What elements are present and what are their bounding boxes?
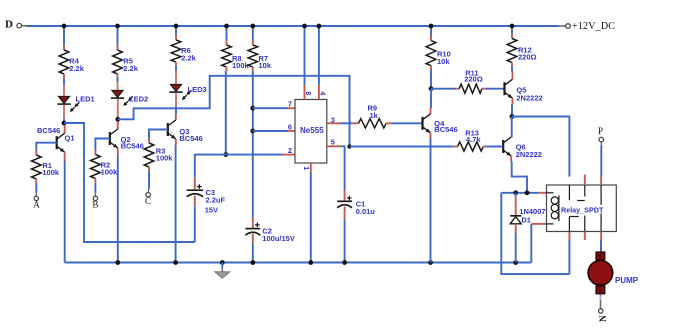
svg-text:10k: 10k	[437, 57, 450, 66]
transistor Q5	[505, 79, 513, 98]
wire relay to pump	[600, 240, 602, 252]
wire pin 5 to C1	[327, 145, 341, 147]
wire C1 bottom to ground rail	[344, 220, 346, 263]
wire pin 6	[253, 130, 288, 132]
svg-text:PUMP: PUMP	[615, 276, 639, 285]
resistor R11	[456, 84, 486, 93]
svg-text:A: A	[33, 200, 40, 210]
svg-text:BC546: BC546	[434, 125, 457, 134]
resistor R3	[144, 139, 154, 172]
node ground Q2	[115, 260, 120, 265]
node ground Q4	[428, 260, 433, 265]
svg-text:P: P	[598, 126, 603, 136]
wire R13 to Q6 base	[486, 146, 503, 148]
wire Q5 emitter to node	[512, 98, 514, 104]
resistor R1	[31, 151, 41, 184]
transistor Q6	[503, 137, 511, 156]
svg-text:2N2222: 2N2222	[516, 93, 542, 102]
wire Q2 emitter to ground rail	[117, 148, 119, 156]
node rail R4	[62, 24, 67, 29]
svg-text:2.2uF: 2.2uF	[206, 196, 226, 205]
transistor Q2	[110, 129, 118, 148]
LED LED2	[111, 91, 148, 107]
svg-text:0.01u: 0.01u	[356, 207, 376, 216]
wire R6 to LED3	[175, 66, 177, 71]
wire pin 7	[253, 107, 288, 109]
wire R12 to Q5 collector	[511, 66, 513, 72]
svg-text:LED1: LED1	[76, 95, 95, 104]
resistor R13	[453, 142, 486, 151]
wire R11 to Q5 base	[486, 88, 505, 90]
node ground Q3	[173, 260, 178, 265]
svg-text:220Ω: 220Ω	[464, 75, 483, 84]
wire relay pin stubs	[585, 175, 601, 241]
wire Q4 emitter to ground rail	[430, 133, 432, 139]
svg-text:C: C	[145, 196, 151, 206]
resistor R9	[352, 119, 391, 128]
wire R3 to terminal C	[148, 171, 150, 189]
wire pin 1 to ground rail	[310, 163, 312, 172]
wire rail to R8	[226, 26, 228, 40]
svg-text:D1: D1	[521, 215, 531, 224]
svg-text:B: B	[92, 200, 98, 210]
node ground D1	[513, 260, 518, 265]
wire rail to R4	[63, 26, 65, 45]
wire R9 to Q4 base	[392, 122, 423, 124]
wire relay coil bottom to ground rail end	[530, 224, 532, 263]
IC op timer Ne555 U1	[295, 100, 327, 164]
node Q6 emitter join	[525, 190, 530, 195]
svg-text:100k: 100k	[42, 168, 60, 177]
wire pump to terminal N	[600, 294, 602, 309]
node ground C1	[342, 260, 347, 265]
svg-text:5: 5	[331, 137, 335, 146]
diode D1 1N4007	[510, 193, 545, 263]
terminal +12V_DC	[566, 21, 616, 32]
wire pin 8 to rail	[304, 26, 306, 85]
resistor R7	[248, 40, 258, 71]
wire node R10 to R11	[431, 88, 456, 90]
terminal D	[5, 19, 22, 31]
node rail R10	[429, 24, 434, 29]
wire R10 to node	[430, 70, 432, 89]
wire top rail +12V	[26, 25, 559, 27]
wire relay to terminal P	[600, 142, 602, 145]
wire LED3 to Q3 collector	[175, 93, 177, 107]
node rail pin4	[317, 24, 322, 29]
transistor Q1	[57, 133, 65, 152]
node R10/R11/Q4 collector	[429, 86, 434, 91]
node Q5 emitter / Q6 collector	[510, 114, 515, 119]
node ground pin1	[308, 260, 313, 265]
svg-text:220Ω: 220Ω	[518, 53, 537, 62]
relay Relay_SPDT	[547, 185, 617, 232]
svg-text:1k: 1k	[370, 111, 379, 120]
wire relay coil top line	[501, 192, 538, 194]
resistor R12	[507, 34, 517, 67]
wire C3 bottom	[194, 206, 196, 242]
wire Q1 base to R1	[36, 143, 56, 151]
svg-text:6: 6	[288, 123, 292, 132]
wire LED2 to node	[117, 99, 119, 120]
svg-text:100k: 100k	[101, 168, 119, 177]
wire Q2 base to R2	[95, 139, 109, 151]
wire rail to R12	[511, 26, 513, 34]
wire rail to R10	[430, 26, 432, 36]
node rail R5	[115, 24, 120, 29]
ground	[215, 263, 230, 279]
svg-text:2.2k: 2.2k	[123, 64, 138, 73]
svg-text:LED2: LED2	[129, 94, 148, 103]
node rail R6	[174, 24, 179, 29]
node ground C2	[250, 260, 255, 265]
node ground symbol	[220, 260, 225, 265]
wire pin 2 from C3 top	[195, 155, 283, 178]
svg-text:7: 7	[288, 100, 292, 109]
svg-text:2N2222: 2N2222	[516, 150, 542, 159]
resistor R6	[171, 35, 181, 66]
wire relay NO contact down	[568, 240, 570, 274]
wire stub to +12V terminal	[559, 25, 566, 27]
wire R4 to LED1	[63, 79, 65, 85]
wire rail to R5	[117, 26, 119, 45]
svg-text:+12V_DC: +12V_DC	[572, 21, 615, 32]
wire ground rail	[65, 262, 532, 264]
capacitor C3	[187, 178, 226, 215]
wire R1 to terminal A	[35, 184, 37, 193]
node rail R7	[250, 24, 255, 29]
terminal N	[598, 309, 608, 322]
wire Q1 emitter to ground rail	[64, 152, 66, 161]
wire node to Q4 collector	[430, 89, 432, 108]
resistor R5	[113, 45, 123, 77]
wire coil line to pump common	[501, 193, 569, 274]
node LED2/Q2 collector	[115, 117, 120, 122]
svg-text:8: 8	[304, 91, 311, 95]
node rail R12	[510, 24, 515, 29]
resistor R10	[426, 36, 436, 71]
LED LED3	[169, 85, 206, 101]
wire Q3 emitter to ground rail	[175, 139, 177, 145]
node LED1/Q1 collector	[62, 121, 67, 126]
node R8 / pin2 line	[223, 152, 228, 157]
wire C2 bottom to ground rail	[252, 243, 254, 263]
resistor R8	[222, 40, 232, 71]
svg-text:BC546: BC546	[121, 141, 144, 150]
node rail pin8	[302, 24, 307, 29]
svg-text:2.2k: 2.2k	[181, 54, 196, 63]
svg-text:2.2k: 2.2k	[69, 64, 84, 73]
wire R5 to LED2	[117, 77, 119, 82]
capacitor C1	[337, 190, 375, 220]
terminal P	[598, 126, 604, 142]
svg-text:3: 3	[331, 115, 335, 124]
svg-text:100k: 100k	[156, 154, 174, 163]
wire R13 line from node to resistor	[350, 146, 454, 148]
wire Q6 emitter to relay coil line	[510, 156, 512, 162]
wire pin 4 to rail	[318, 26, 320, 85]
transistor Q4	[423, 114, 431, 133]
node pin7	[250, 106, 255, 111]
wire R8 to pin2 line	[225, 71, 227, 155]
transistor Q3	[168, 120, 176, 139]
svg-text:10k: 10k	[259, 61, 272, 70]
svg-text:D: D	[5, 19, 13, 31]
capacitor C2	[245, 218, 294, 243]
wire node LED2 to Ne555 area (to R13 line)	[118, 76, 350, 147]
svg-text:BC546: BC546	[179, 134, 202, 143]
wire pin 3 to R9	[327, 122, 341, 124]
wire rail to R7	[252, 26, 254, 40]
wire Q1 collector stub	[64, 125, 66, 133]
svg-text:100u/15V: 100u/15V	[262, 234, 295, 243]
wire node to C3 bottom line	[64, 123, 195, 242]
node pin6	[250, 129, 255, 134]
svg-text:1: 1	[302, 166, 309, 170]
svg-text:15V: 15V	[205, 205, 218, 214]
svg-text:2: 2	[288, 146, 292, 155]
wire R7 down to C2	[252, 71, 254, 218]
node LED2 net / R13 line	[347, 144, 351, 148]
resistor R2	[91, 150, 101, 183]
wire Q3 base to R3	[149, 130, 168, 139]
wire rail to R6	[175, 26, 177, 35]
svg-text:4.7k: 4.7k	[466, 135, 481, 144]
svg-text:Q1: Q1	[65, 134, 75, 143]
wire LED1 to node	[63, 105, 65, 119]
terminal C	[145, 193, 151, 206]
svg-text:Relay_SPDT: Relay_SPDT	[561, 206, 604, 215]
terminal B	[92, 196, 98, 209]
node D1 cathode	[513, 190, 518, 195]
svg-text:N: N	[598, 315, 608, 322]
node rail R8	[224, 24, 229, 29]
svg-text:4: 4	[319, 91, 326, 95]
terminal A	[33, 196, 40, 209]
wire node to relay contact	[512, 117, 569, 177]
LED LED1	[57, 95, 94, 113]
wire Q6 collector	[511, 117, 513, 138]
svg-text:LED3: LED3	[188, 85, 207, 94]
wire stub from terminal D	[21, 25, 27, 27]
svg-text:Ne555: Ne555	[300, 126, 324, 135]
wire Q2 collector stub	[117, 122, 119, 130]
svg-text:BC546: BC546	[37, 126, 60, 135]
motor PUMP	[588, 252, 639, 294]
wire R2 to terminal B	[94, 183, 96, 193]
resistor R4	[59, 45, 69, 79]
